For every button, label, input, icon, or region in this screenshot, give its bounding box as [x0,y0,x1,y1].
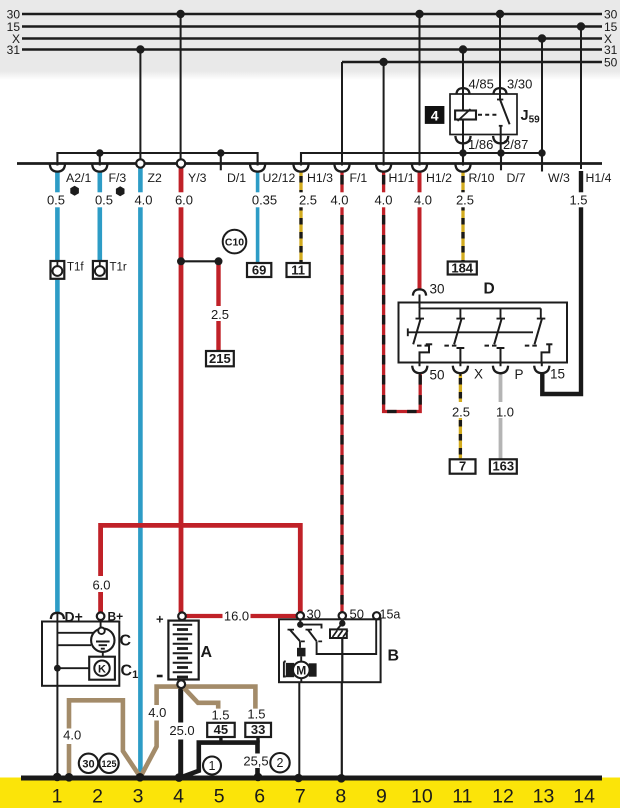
svg-text:1/86: 1/86 [468,137,493,152]
svg-text:D/7: D/7 [507,171,526,185]
svg-text:D+: D+ [65,609,83,625]
svg-text:A: A [201,644,213,661]
svg-text:D/1: D/1 [227,171,246,185]
svg-text:15a: 15a [380,608,401,622]
svg-text:W/3: W/3 [548,171,570,185]
svg-text:2.5: 2.5 [299,193,317,208]
svg-text:25,5: 25,5 [243,754,268,769]
svg-text:Y/3: Y/3 [188,171,207,185]
svg-text:R/10: R/10 [469,171,495,185]
svg-text:0.35: 0.35 [252,193,277,208]
svg-text:30: 30 [307,607,321,622]
svg-text:30: 30 [82,759,94,771]
svg-text:4.0: 4.0 [63,728,81,743]
svg-text:4.0: 4.0 [330,193,348,208]
svg-text:Z2: Z2 [148,171,163,185]
svg-text:0.5: 0.5 [47,193,65,208]
svg-text:125: 125 [102,759,118,770]
svg-text:5: 5 [214,786,225,808]
svg-text:2.5: 2.5 [452,405,470,420]
svg-text:2.5: 2.5 [211,307,229,322]
svg-text:7: 7 [459,459,466,474]
svg-text:4: 4 [431,107,439,123]
svg-text:1.5: 1.5 [569,193,587,208]
svg-text:F/1: F/1 [350,171,368,185]
svg-text:45: 45 [214,722,228,737]
svg-text:K: K [98,663,106,675]
svg-text:D: D [484,281,495,298]
svg-text:P: P [515,367,524,382]
svg-text:16.0: 16.0 [224,609,249,624]
svg-text:4.0: 4.0 [374,193,392,208]
svg-text:2: 2 [92,786,103,808]
svg-text:2: 2 [277,756,284,770]
svg-text:8: 8 [335,786,346,808]
svg-text:H1/2: H1/2 [426,171,452,185]
svg-text:2/87: 2/87 [503,137,528,152]
svg-text:11: 11 [291,263,305,278]
svg-text:1.5: 1.5 [211,708,229,723]
svg-text:1.0: 1.0 [496,405,514,420]
svg-text:1: 1 [52,786,63,808]
svg-text:215: 215 [209,351,231,366]
svg-text:25.0: 25.0 [169,723,194,738]
svg-text:50: 50 [350,607,364,622]
svg-text:6.0: 6.0 [175,193,193,208]
svg-text:B+: B+ [108,610,124,624]
svg-text:1.5: 1.5 [247,707,265,722]
svg-text:13: 13 [533,786,555,808]
svg-text:1: 1 [209,759,216,773]
svg-text:10: 10 [411,786,433,808]
svg-text:C: C [120,633,132,650]
svg-text:12: 12 [492,786,514,808]
svg-text:T1f: T1f [67,262,84,274]
svg-text:H1/4: H1/4 [586,171,612,185]
svg-text:31: 31 [7,43,21,57]
svg-text:0.5: 0.5 [95,193,113,208]
svg-text:A2/1: A2/1 [66,171,91,185]
svg-text:H1/1: H1/1 [389,171,415,185]
svg-text:4.0: 4.0 [134,193,152,208]
svg-text:C10: C10 [225,237,244,249]
svg-text:T1r: T1r [110,262,127,274]
svg-text:B: B [388,648,400,665]
svg-text:H1/3: H1/3 [307,171,333,185]
svg-text:50: 50 [430,368,445,383]
svg-text:50: 50 [604,55,618,69]
svg-text:X: X [474,367,483,382]
svg-text:6: 6 [254,786,265,808]
svg-text:7: 7 [295,786,306,808]
svg-text:69: 69 [252,263,266,278]
svg-text:U2/12: U2/12 [263,171,296,185]
svg-text:4.0: 4.0 [414,193,432,208]
svg-text:M: M [296,663,306,677]
svg-text:11: 11 [452,786,472,808]
svg-text:30: 30 [430,282,445,297]
svg-text:184: 184 [451,261,473,276]
svg-text:+: + [156,612,164,627]
svg-text:14: 14 [573,786,595,808]
svg-text:9: 9 [376,786,387,808]
svg-text:15: 15 [550,367,565,382]
svg-text:3: 3 [133,786,144,808]
svg-text:4.0: 4.0 [148,705,166,720]
svg-text:33: 33 [251,722,265,737]
svg-text:2.5: 2.5 [456,193,474,208]
svg-text:163: 163 [492,459,514,474]
svg-text:F/3: F/3 [109,171,127,185]
svg-text:4: 4 [173,786,184,808]
svg-text:3/30: 3/30 [507,77,532,92]
svg-text:4/85: 4/85 [469,77,494,92]
svg-text:6.0: 6.0 [92,578,110,593]
